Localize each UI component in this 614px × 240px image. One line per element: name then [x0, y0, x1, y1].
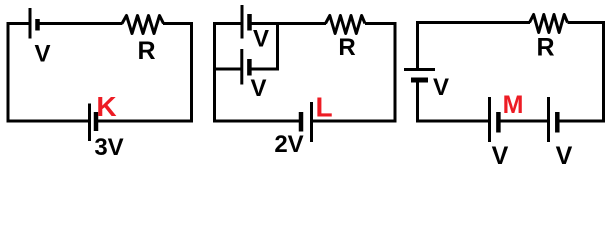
svg-text:2V: 2V	[274, 131, 303, 158]
wire: circuit2 parallel branch left part	[215, 68, 241, 71]
wire: circuit3 left edge upper and top-left	[418, 23, 531, 69]
battery 3V (circuit 1) short plate	[94, 112, 99, 131]
cell V bottom-second (circuit 3) short plate	[555, 112, 560, 133]
wire: circuit3 left edge lower and bottom-left	[418, 82, 489, 122]
wire: circuit1 top-right, right edge, bottom-right	[97, 24, 192, 122]
cell V (circuit 1) short plate	[35, 19, 40, 31]
svg-text:V: V	[253, 26, 269, 53]
svg-text:V: V	[34, 41, 50, 68]
svg-text:R: R	[536, 34, 554, 62]
svg-text:L: L	[315, 92, 332, 123]
wire: circuit3 bottom between cell V and cell V	[499, 120, 548, 123]
battery 2V (circuit 2) short plate	[299, 112, 304, 132]
wire: circuit2 top-left, left edge, bottom-left	[215, 24, 301, 122]
wire: circuit2 parallel branch right part	[250, 68, 278, 71]
cell V lower (circuit 2) long plate	[240, 49, 243, 85]
wire: circuit2 top-right, right edge, bottom-right	[312, 24, 395, 122]
cell V side (circuit 3) long plate horizontal	[404, 68, 435, 71]
cell V upper (circuit 2) long plate	[241, 5, 244, 39]
resistor R (circuit 2)	[326, 16, 366, 34]
svg-text:V: V	[556, 142, 573, 170]
wire: circuit1 top-left, left edge, bottom-left	[8, 24, 89, 122]
cell V bottom-second (circuit 3) long plate	[547, 97, 550, 142]
svg-text:R: R	[137, 37, 155, 65]
cell V bottom-first (circuit 3) short plate	[496, 112, 501, 133]
wire: circuit1 top from cell V to resistor R	[38, 22, 123, 25]
wire: circuit2 vertical connector from top wire to branch	[276, 24, 279, 71]
cell V lower (circuit 2) short plate	[247, 59, 252, 76]
battery 2V (circuit 2) long plate	[310, 102, 313, 142]
resistor R (circuit 3)	[530, 15, 568, 33]
svg-text:V: V	[250, 75, 266, 102]
svg-text:V: V	[492, 142, 509, 170]
svg-text:R: R	[338, 34, 355, 61]
resistor R (circuit 1)	[122, 16, 164, 34]
svg-text:K: K	[96, 91, 116, 122]
cell V side (circuit 3) short plate horizontal	[411, 78, 428, 83]
cell V upper (circuit 2) short plate	[247, 14, 252, 31]
svg-text:M: M	[503, 91, 524, 119]
cell V (circuit 1) long plate	[29, 8, 32, 39]
wire: circuit3 top-right, right edge, bottom-right	[558, 23, 604, 122]
svg-text:V: V	[433, 74, 449, 101]
cell V bottom-first (circuit 3) long plate	[488, 97, 491, 142]
battery 3V (circuit 1) long plate	[88, 104, 91, 142]
wire: circuit2 top from cell to resistor	[250, 22, 327, 25]
svg-text:3V: 3V	[94, 134, 123, 161]
